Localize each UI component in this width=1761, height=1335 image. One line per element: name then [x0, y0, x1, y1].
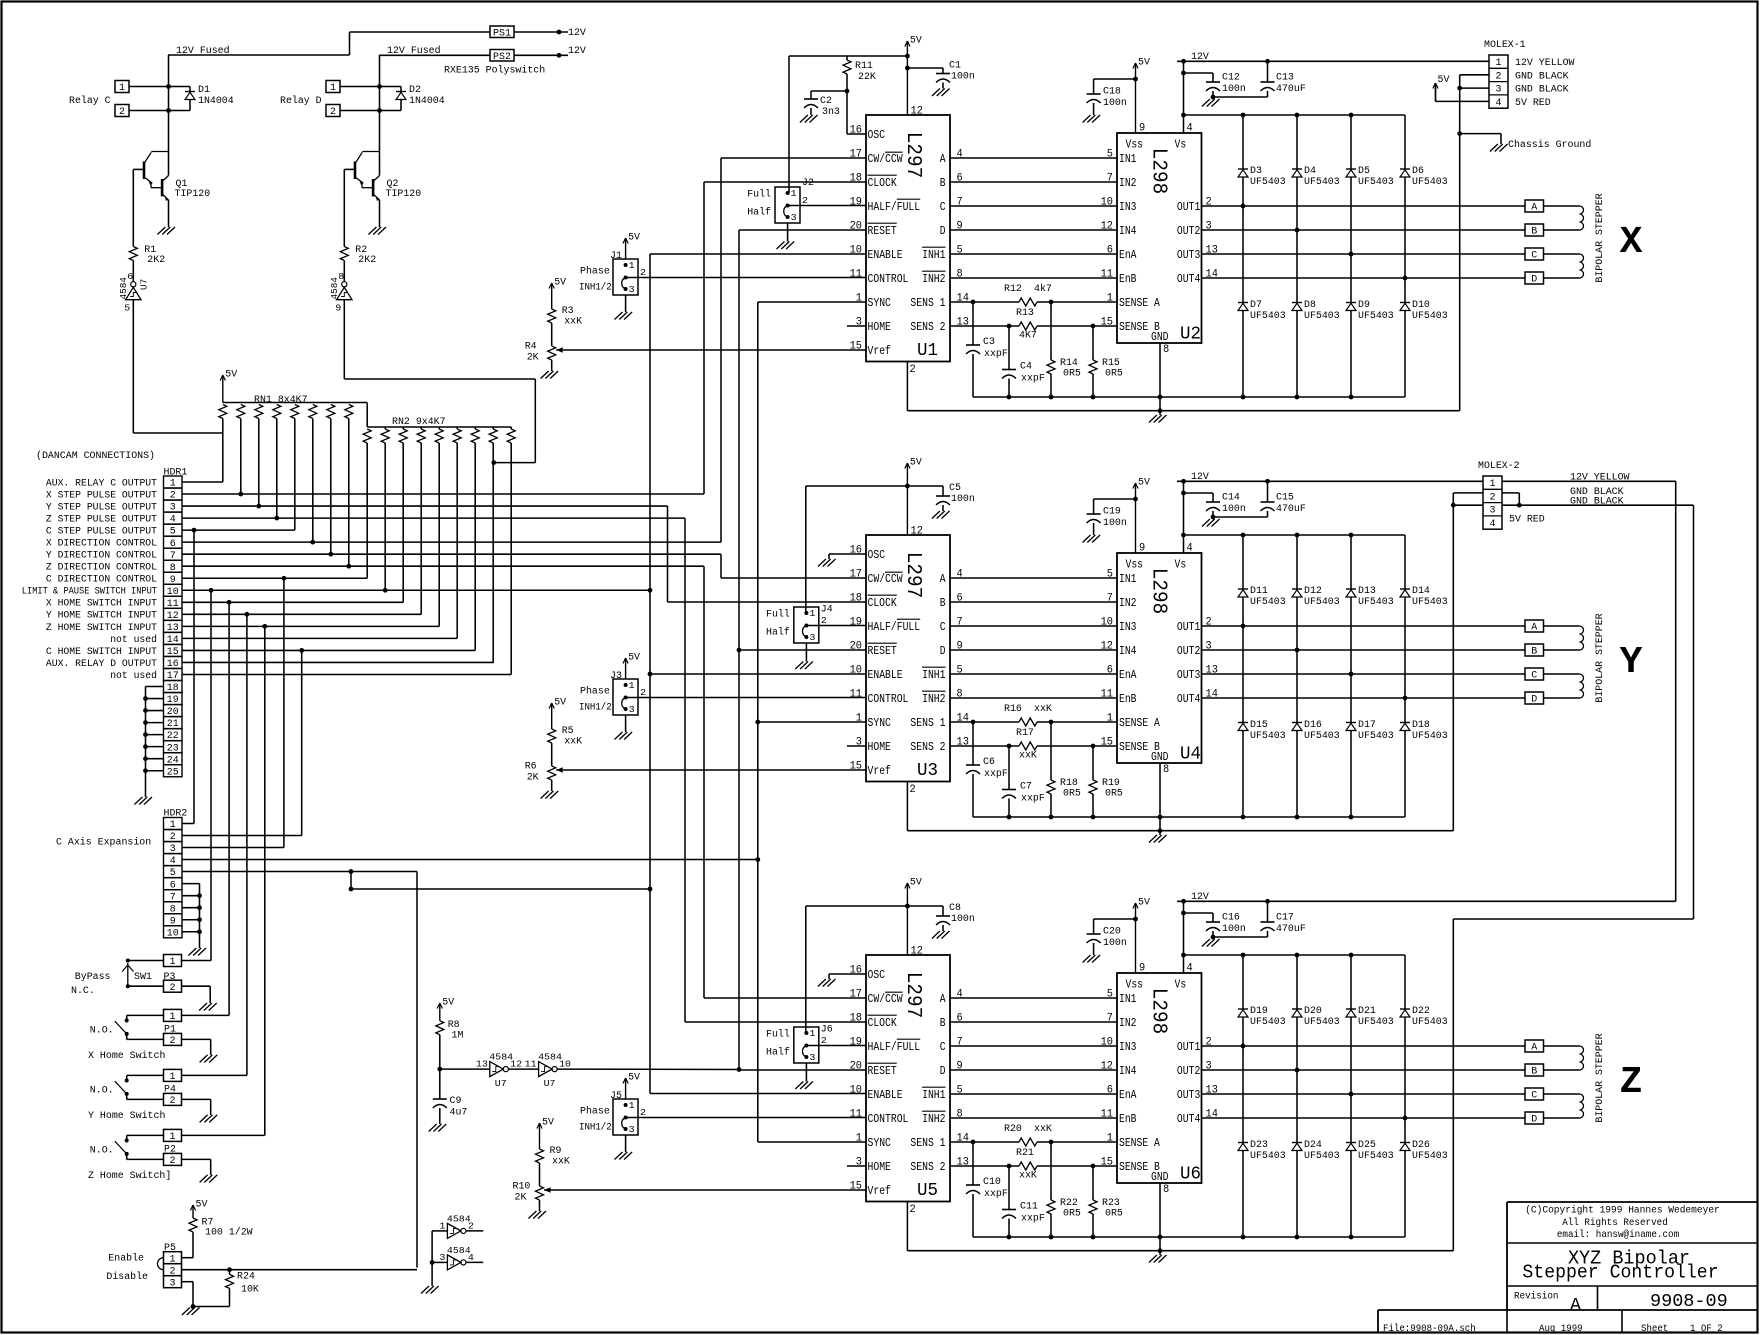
svg-text:R4: R4 [525, 342, 537, 353]
svg-text:9: 9 [1139, 123, 1145, 135]
node Vss cap [1133, 917, 1138, 922]
svg-text:D: D [940, 644, 946, 658]
label HDR1 [164, 468, 188, 479]
svg-text:email: hansw@iname.com: email: hansw@iname.com [1557, 1229, 1679, 1241]
svg-text:0R5: 0R5 [1105, 369, 1123, 380]
wire P4 pin1 left [127, 1075, 164, 1080]
label RXE135 Polyswitch [444, 65, 545, 77]
svg-text:Vref: Vref [868, 764, 891, 778]
wire motor C to coil [1544, 253, 1580, 255]
svg-text:OUT2: OUT2 [1177, 1064, 1200, 1078]
svg-text:SYNC: SYNC [868, 1136, 891, 1150]
svg-text:OUT1: OUT1 [1177, 1040, 1200, 1054]
svg-text:100n: 100n [1222, 84, 1246, 95]
label Full [766, 609, 790, 621]
svg-text:9: 9 [1139, 963, 1145, 975]
node sens2 c4 [1007, 1164, 1012, 1169]
svg-text:10K: 10K [241, 1285, 259, 1296]
node Vss cap [1133, 77, 1138, 82]
wire gate10 to RESET bus [557, 1068, 739, 1070]
resistor RN2 element 8 [489, 427, 497, 662]
svg-text:20: 20 [850, 1061, 862, 1073]
svg-text:5V: 5V [628, 653, 640, 664]
svg-text:(C)Copyright 1999 Hannes Wede: (C)Copyright 1999 Hannes Wedemeyer [1525, 1205, 1720, 1217]
svg-text:RESET: RESET [868, 1064, 897, 1078]
svg-text:Phase: Phase [580, 266, 610, 278]
svg-text:B: B [940, 1016, 946, 1030]
svg-text:10: 10 [559, 1060, 571, 1070]
inverter U7 gate C [118, 272, 150, 314]
connector motor D [1525, 692, 1544, 706]
svg-text:C6: C6 [983, 757, 995, 768]
wire diode column D22 [1404, 955, 1406, 1237]
wire P3 pin1 left [128, 960, 164, 962]
svg-text:(DANCAM CONNECTIONS): (DANCAM CONNECTIONS) [36, 450, 155, 462]
svg-text:D14: D14 [1412, 586, 1430, 597]
wire 12V feed Z [1675, 481, 1677, 901]
resistor R11 [843, 56, 876, 91]
wire 5V to J jumper [806, 905, 908, 907]
IC U3 L297 stepper controller [850, 526, 970, 797]
node diode OUT row [1349, 252, 1354, 257]
node p12 drop [245, 612, 250, 617]
wire HDR1 p5 C STEP [182, 529, 295, 531]
svg-text:CW/CCW: CW/CCW [868, 572, 904, 586]
label Full [766, 1029, 790, 1041]
title text name2 [1522, 1262, 1718, 1284]
wire R11 to OSC [847, 91, 866, 134]
wire SENS2 row [950, 745, 1117, 747]
svg-text:100n: 100n [1222, 504, 1246, 515]
svg-text:R22: R22 [1060, 1198, 1078, 1209]
wire riser Z DIR to U5 CWCCW [703, 566, 705, 998]
svg-text:INH2: INH2 [922, 1112, 945, 1126]
svg-text:J1: J1 [610, 251, 622, 262]
svg-text:C: C [1531, 1091, 1537, 1102]
svg-text:5V RED: 5V RED [1509, 515, 1545, 526]
svg-text:HALF/FULL: HALF/FULL [868, 1040, 921, 1054]
svg-text:UF5403: UF5403 [1250, 1151, 1286, 1162]
svg-text:12V: 12V [1191, 892, 1209, 903]
wire INH1-EnA [950, 253, 1117, 255]
label RN2 [392, 417, 446, 428]
label Phase [580, 1106, 610, 1118]
node sens1 c3 [971, 720, 976, 725]
svg-text:OSC: OSC [868, 128, 886, 142]
svg-text:UF5403: UF5403 [1412, 1151, 1448, 1162]
svg-text:not used: not used [110, 634, 157, 646]
svg-text:C4: C4 [1020, 362, 1032, 373]
svg-text:IN1: IN1 [1119, 572, 1137, 586]
svg-text:20: 20 [850, 641, 862, 653]
svg-text:Revision: Revision [1514, 1290, 1559, 1302]
IC U1 L297 stepper controller [850, 106, 970, 377]
wire OUT4 [1202, 697, 1526, 699]
label Relay C [69, 95, 111, 107]
wire cap branch [1094, 498, 1136, 500]
svg-text:D6: D6 [1412, 166, 1424, 177]
resistor R21 [1016, 1148, 1037, 1182]
capacitor C10 [966, 1142, 1008, 1237]
wire R to inverter [343, 261, 345, 282]
connector P5 pin1 [164, 1252, 182, 1266]
svg-text:R3: R3 [562, 306, 574, 317]
wire J4 feed [805, 486, 807, 613]
svg-text:IN2: IN2 [1119, 1016, 1137, 1030]
svg-text:OSC: OSC [868, 968, 886, 982]
ground chassis [1490, 144, 1508, 152]
svg-text:SYNC: SYNC [868, 716, 891, 730]
svg-text:4u7: 4u7 [450, 1108, 468, 1119]
svg-text:C: C [940, 200, 946, 214]
svg-text:Half: Half [766, 1047, 790, 1059]
wire B-IN2 [950, 601, 1117, 603]
resistor R1 [129, 169, 165, 266]
wire OUT1 [1202, 205, 1526, 207]
diode D6 [1400, 166, 1448, 188]
wire INH2-EnB [950, 697, 1117, 699]
wire Vref [544, 1187, 866, 1192]
svg-text:L298: L298 [1147, 568, 1170, 614]
wire SENS1 row [950, 301, 1117, 303]
node P5 ground [191, 1304, 196, 1309]
node gnd link [1158, 1248, 1163, 1253]
resistor R10 (pot) [513, 1182, 544, 1212]
power 5V molex1 [1433, 75, 1450, 101]
diode D13 [1346, 586, 1394, 608]
wire 12V rail [1177, 900, 1676, 902]
label 12V [1191, 52, 1209, 63]
wire U1 pin2 gnd [907, 362, 1459, 411]
connector motor D [1525, 272, 1544, 286]
wire drop X HOME to P1 [228, 602, 230, 1015]
svg-text:EnA: EnA [1119, 1088, 1137, 1102]
resistor RN2 element 1 [363, 429, 371, 578]
diode D26 [1400, 1140, 1448, 1162]
svg-text:TIP120: TIP120 [175, 189, 211, 200]
svg-text:12V: 12V [1191, 52, 1209, 63]
title text rights [1562, 1217, 1668, 1229]
svg-text:CW/CCW: CW/CCW [868, 152, 904, 166]
wire 12V rail [1177, 480, 1483, 482]
svg-text:4: 4 [468, 1253, 474, 1263]
label J3 [610, 671, 622, 682]
diode D3 [1238, 166, 1286, 188]
node gnd link [1158, 408, 1163, 413]
svg-text:AUX. RELAY C OUTPUT: AUX. RELAY C OUTPUT [46, 477, 157, 489]
label HDR2 [164, 809, 188, 820]
wire RN2 rail [367, 426, 511, 428]
ground P3 [199, 1003, 217, 1011]
label N.O. P4 [90, 1085, 114, 1096]
svg-text:UF5403: UF5403 [1412, 597, 1448, 608]
ground OSC U5 [818, 979, 836, 987]
svg-text:D10: D10 [1412, 300, 1430, 311]
svg-text:UF5403: UF5403 [1358, 1017, 1394, 1028]
wire relay pin2 [129, 110, 190, 112]
stepper coil [1580, 254, 1584, 278]
svg-text:Phase: Phase [580, 686, 610, 698]
svg-text:Vref: Vref [868, 344, 891, 358]
svg-text:U5: U5 [917, 1181, 938, 1201]
IC U6 L298 driver [1101, 963, 1219, 1197]
ground R4 [541, 371, 559, 379]
svg-text:5V RED: 5V RED [1515, 98, 1551, 109]
svg-text:100n: 100n [1103, 518, 1127, 529]
svg-text:100n: 100n [951, 72, 975, 83]
svg-text:BIPOLAR STEPPER: BIPOLAR STEPPER [1595, 193, 1606, 282]
resistor RN2 element 6 [453, 427, 461, 638]
node rail Vs [1181, 479, 1186, 484]
ground U4 [1149, 835, 1167, 843]
wire P3 pin2 to ground [182, 986, 210, 1003]
node diode OUT row [1403, 276, 1408, 281]
diode D12 [1292, 586, 1340, 608]
svg-text:D17: D17 [1358, 720, 1376, 731]
svg-text:ENABLE: ENABLE [868, 248, 903, 262]
svg-text:L298: L298 [1147, 148, 1170, 194]
relay D pin 1 [326, 81, 340, 95]
wire U5 CWCCW entry [704, 997, 866, 999]
svg-text:4: 4 [1496, 98, 1502, 109]
label GND BLACK m2a [1570, 487, 1624, 498]
svg-text:xxK: xxK [1019, 1171, 1037, 1182]
jumper J3 Phase INH1/2 [613, 679, 866, 732]
wire HDR2-5 to ENABLE bus [351, 888, 650, 890]
wire relay pin1 [129, 86, 190, 88]
svg-text:2: 2 [910, 784, 916, 796]
connector motor A [1525, 1040, 1544, 1054]
wire cap12 branch [1184, 912, 1214, 914]
wire relay pin1 [340, 86, 401, 88]
svg-text:Vss: Vss [1126, 558, 1144, 572]
wire OSC ground stub [829, 974, 866, 979]
svg-text:IN3: IN3 [1119, 1040, 1137, 1054]
node diode OUT row [1241, 204, 1246, 209]
node molex2 gnd left [1451, 503, 1456, 508]
svg-text:1: 1 [170, 957, 176, 968]
title text date [1539, 1324, 1583, 1335]
svg-text:3: 3 [809, 632, 815, 643]
resistor R17 [1016, 728, 1037, 762]
node sens2 r15 [1091, 744, 1096, 749]
diode D17 [1346, 720, 1394, 742]
svg-text:SENSE A: SENSE A [1119, 1136, 1161, 1150]
wire riser X DIR to U1 CWCCW [720, 158, 722, 542]
wire inverter C input [133, 300, 223, 433]
wire U1 CLOCK entry [704, 181, 866, 183]
svg-text:U7: U7 [495, 1079, 507, 1089]
svg-text:D8: D8 [1304, 300, 1316, 311]
wire U1 RESET entry [739, 229, 866, 231]
svg-text:2: 2 [170, 1156, 176, 1167]
diode D11 [1238, 586, 1286, 608]
svg-text:3: 3 [1490, 506, 1496, 517]
wire ENABLE bus [649, 254, 651, 1094]
resistor RN2 element 3 [399, 427, 407, 602]
svg-text:12V Fused: 12V Fused [176, 45, 230, 57]
wire P1 pin2 left [127, 1034, 164, 1040]
wire U3 SYNC entry [758, 721, 866, 723]
svg-text:INH1: INH1 [922, 668, 945, 682]
node RESET bus ch2 [737, 648, 742, 653]
svg-text:10: 10 [850, 1085, 862, 1097]
svg-text:C13: C13 [1276, 73, 1294, 84]
wire SYNC bus [757, 302, 759, 1142]
label Half [766, 627, 790, 639]
resistor R18 [1047, 722, 1081, 817]
svg-text:Z: Z [1620, 1061, 1643, 1104]
svg-text:X: X [1620, 221, 1643, 264]
node diode OUT row [1403, 696, 1408, 701]
node sens2 r15 [1091, 1164, 1096, 1169]
node cap gnd [1211, 935, 1216, 940]
svg-text:J4: J4 [821, 605, 833, 616]
node diode OUT row [1295, 228, 1300, 233]
svg-text:UF5403: UF5403 [1358, 177, 1394, 188]
svg-text:2: 2 [1496, 71, 1502, 82]
svg-text:TIP120: TIP120 [386, 189, 422, 200]
svg-text:3: 3 [791, 212, 797, 223]
svg-text:GND: GND [1151, 1170, 1169, 1184]
capacitor C8 [936, 903, 975, 931]
wire molex2 pin1 right 12V [1502, 480, 1676, 482]
svg-text:X HOME SWITCH INPUT: X HOME SWITCH INPUT [46, 598, 157, 610]
svg-text:0R5: 0R5 [1063, 369, 1081, 380]
stepper coil [1580, 206, 1584, 230]
wire INH1-EnA [950, 673, 1117, 675]
svg-text:1: 1 [629, 680, 635, 691]
node chassis tap [1457, 131, 1462, 136]
resistor R20 [1004, 1124, 1052, 1146]
svg-text:Z DIRECTION CONTROL: Z DIRECTION CONTROL [46, 562, 157, 574]
jumper J6 Full/Half [794, 1025, 866, 1082]
ground Q1 emitter [157, 227, 175, 235]
label Phase [580, 266, 610, 278]
svg-text:Y: Y [1620, 641, 1643, 684]
resistor R2 [340, 169, 376, 266]
power 5V R5 [549, 698, 566, 730]
capacitor C14 [1206, 493, 1246, 518]
svg-text:20: 20 [850, 221, 862, 233]
svg-text:8: 8 [1163, 1184, 1169, 1196]
wire riser Y STEP to U3 CLOCK [667, 506, 669, 602]
wire inverter D input [344, 300, 535, 463]
svg-text:4: 4 [1187, 543, 1194, 555]
wire OUT2 [1202, 229, 1526, 231]
svg-text:C7: C7 [1020, 782, 1032, 793]
wire cap12 branch [1184, 72, 1214, 74]
svg-text:UF5403: UF5403 [1304, 1151, 1340, 1162]
capacitor C2 [804, 91, 840, 118]
svg-text:OUT3: OUT3 [1177, 668, 1200, 682]
svg-text:C10: C10 [983, 1177, 1001, 1188]
connector motor A [1525, 200, 1544, 214]
svg-text:C1: C1 [949, 61, 961, 72]
diode D14 [1400, 586, 1448, 608]
wire HDR1 p13 Z HOME [182, 625, 439, 627]
node p9 drop [282, 576, 287, 581]
svg-text:0R5: 0R5 [1063, 1209, 1081, 1220]
capacitor C4 [1002, 326, 1045, 397]
wire molex1 pin4 [1436, 83, 1490, 101]
wire diode top bus [1184, 533, 1406, 538]
wire B-IN2 [950, 1021, 1117, 1023]
diode D25 [1346, 1140, 1394, 1162]
svg-text:R13: R13 [1016, 308, 1034, 319]
wire OSC ground stub [829, 554, 866, 559]
resistor R22 [1047, 1142, 1081, 1237]
svg-text:UF5403: UF5403 [1304, 177, 1340, 188]
node RESET bus gate [737, 1067, 742, 1072]
connector P4 pin1 [164, 1069, 182, 1083]
svg-text:18: 18 [850, 1013, 862, 1025]
wire U3 CWCCW entry [721, 577, 866, 579]
svg-text:11: 11 [850, 1109, 863, 1121]
node rail Vs [1181, 59, 1186, 64]
svg-text:D11: D11 [1250, 586, 1268, 597]
svg-text:2: 2 [170, 1096, 176, 1107]
svg-text:D13: D13 [1358, 586, 1376, 597]
svg-text:U4: U4 [1180, 745, 1201, 765]
ground C20 [1083, 955, 1101, 963]
ground J4 [795, 662, 813, 670]
svg-text:J3: J3 [610, 671, 622, 682]
label RN1 [254, 395, 308, 406]
svg-text:18: 18 [850, 593, 862, 605]
wire riser Y DIR to U3 CWCCW [720, 554, 722, 578]
resistor R13 [1016, 308, 1037, 342]
title text file [1383, 1323, 1476, 1335]
wire chassis link [1460, 134, 1501, 144]
svg-text:IN3: IN3 [1119, 620, 1137, 634]
svg-text:UF5403: UF5403 [1358, 731, 1394, 742]
resistor R16 [1004, 704, 1052, 726]
resistor RN1 element 7 [327, 405, 335, 555]
svg-text:xxpF: xxpF [984, 1189, 1008, 1200]
wire OUT1 [1202, 1045, 1526, 1047]
svg-text:1: 1 [809, 608, 815, 619]
wire P1 pin2 to ground [182, 1039, 211, 1055]
svg-text:Y DIRECTION CONTROL: Y DIRECTION CONTROL [46, 550, 157, 562]
svg-text:1: 1 [439, 1221, 445, 1231]
svg-text:UF5403: UF5403 [1250, 177, 1286, 188]
label Full [747, 189, 771, 201]
svg-text:X Home Switch: X Home Switch [88, 1050, 165, 1062]
node sens2 r15 [1091, 324, 1096, 329]
svg-text:Vs: Vs [1175, 558, 1187, 572]
resistor R14 [1047, 302, 1081, 397]
capacitor C11 [1002, 1166, 1045, 1237]
svg-text:D23: D23 [1250, 1140, 1268, 1151]
wire Vs drop [1183, 901, 1185, 973]
svg-text:P4: P4 [164, 1084, 176, 1095]
diode D21 [1346, 1006, 1394, 1028]
svg-text:1: 1 [629, 260, 635, 271]
wire A-IN1 [950, 577, 1117, 579]
node sens2 c4 [1007, 324, 1012, 329]
resistor R15 [1089, 326, 1123, 397]
svg-text:P1: P1 [164, 1024, 176, 1035]
svg-text:xxK: xxK [1019, 751, 1037, 762]
svg-text:R20: R20 [1004, 1124, 1022, 1135]
svg-text:C19: C19 [1103, 507, 1121, 518]
svg-text:PS1: PS1 [493, 29, 511, 40]
power 5V U4 [1133, 478, 1150, 554]
svg-text:12V: 12V [568, 46, 586, 57]
svg-text:D4: D4 [1304, 166, 1316, 177]
svg-text:OUT1: OUT1 [1177, 200, 1200, 214]
